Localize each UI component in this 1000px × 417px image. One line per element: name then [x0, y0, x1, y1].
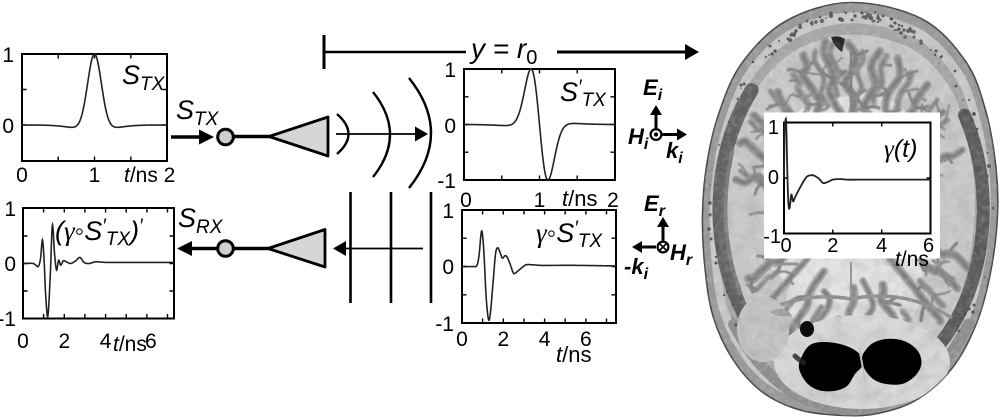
svg-text:-1: -1 [0, 308, 16, 331]
svg-text:t/ns: t/ns [556, 342, 591, 367]
svg-text:1: 1 [442, 200, 454, 223]
svg-text:1: 1 [768, 117, 779, 139]
svg-text:0: 0 [2, 115, 14, 138]
svg-text:2: 2 [58, 330, 70, 353]
svg-text:t/ns: t/ns [124, 164, 158, 187]
svg-text:γ(t): γ(t) [884, 135, 917, 163]
svg-text:0: 0 [460, 189, 472, 212]
svg-text:4: 4 [876, 235, 887, 257]
svg-text:0: 0 [17, 330, 29, 353]
svg-text:1: 1 [89, 164, 101, 187]
svg-text:1: 1 [4, 198, 16, 221]
svg-text:0: 0 [4, 253, 16, 276]
svg-text:0: 0 [16, 164, 28, 187]
svg-text:-1: -1 [437, 170, 456, 193]
svg-text:1: 1 [2, 44, 14, 67]
svg-text:t/ns: t/ns [562, 186, 597, 211]
svg-text:-1: -1 [763, 226, 781, 248]
svg-text:0: 0 [780, 235, 791, 257]
svg-text:0: 0 [442, 256, 454, 279]
svg-text:2: 2 [827, 235, 838, 257]
svg-text:(γ◦S′TX)′: (γ◦S′TX)′ [55, 216, 144, 250]
svg-text:2: 2 [497, 328, 509, 351]
svg-text:1: 1 [444, 59, 456, 82]
svg-text:-1: -1 [435, 313, 454, 336]
svg-text:2: 2 [607, 189, 619, 212]
svg-text:4: 4 [100, 330, 112, 353]
svg-text:4: 4 [539, 328, 551, 351]
svg-text:1: 1 [534, 189, 546, 212]
svg-text:0: 0 [456, 328, 468, 351]
svg-text:t/ns: t/ns [113, 333, 147, 356]
svg-text:0: 0 [768, 167, 779, 189]
svg-text:0: 0 [444, 115, 456, 138]
svg-text:t/ns: t/ns [895, 248, 929, 271]
svg-text:2: 2 [164, 164, 176, 187]
